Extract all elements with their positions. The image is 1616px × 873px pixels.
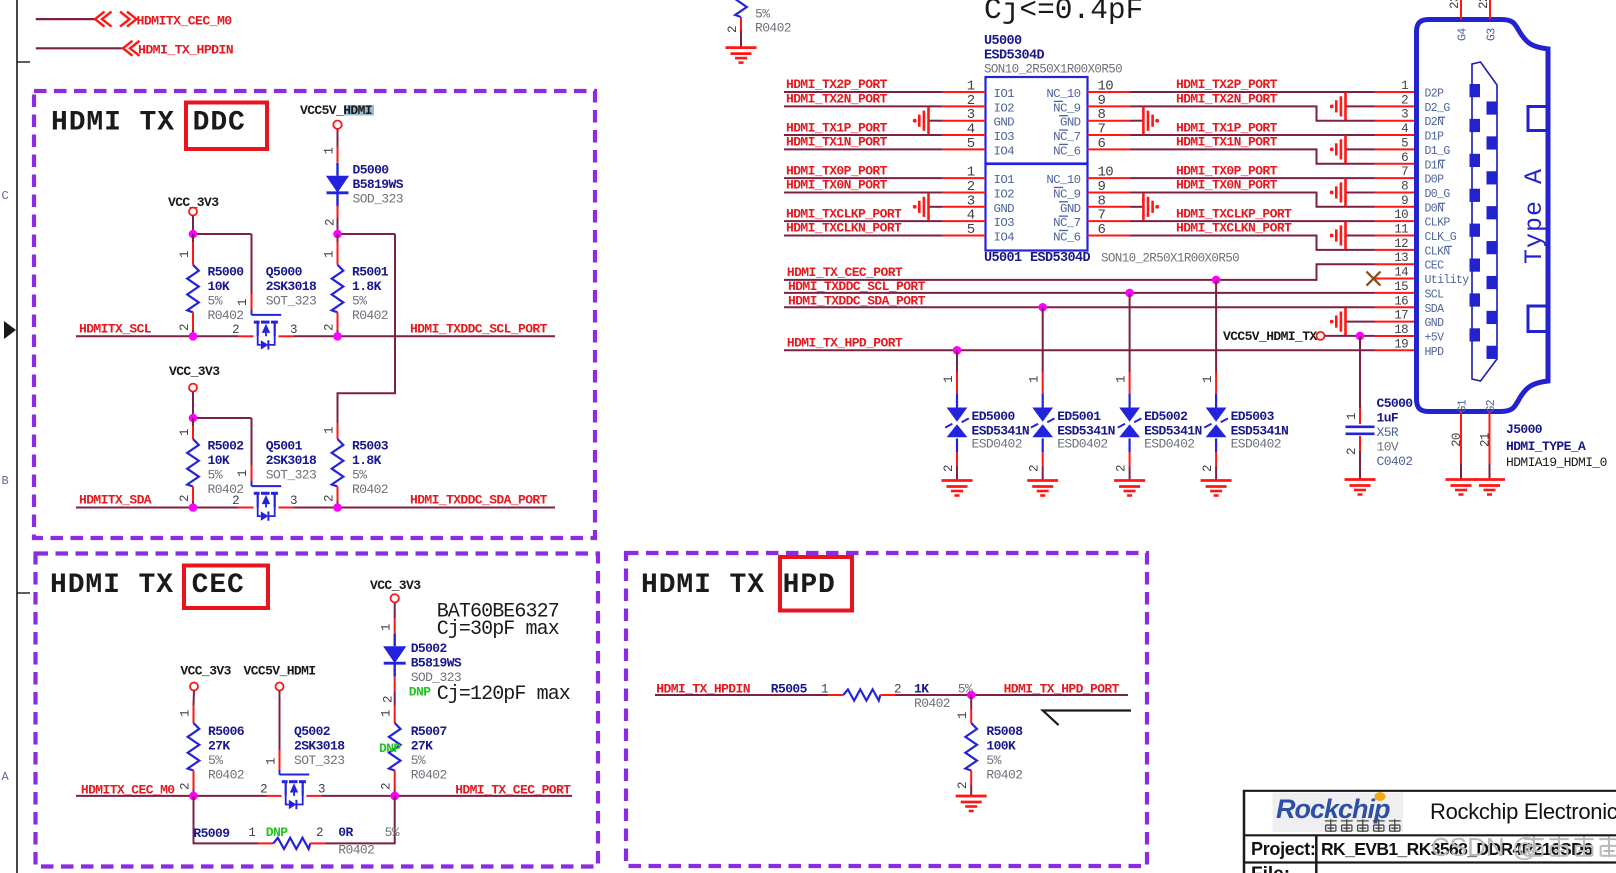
svg-text:NC_7: NC_7 — [1053, 130, 1081, 144]
svg-text:Q5000: Q5000 — [266, 265, 303, 280]
svg-text:1: 1 — [323, 251, 337, 258]
svg-text:2: 2 — [260, 783, 267, 797]
svg-text:C5000: C5000 — [1377, 396, 1414, 411]
svg-text:2: 2 — [380, 783, 394, 790]
svg-text:NC_9: NC_9 — [1053, 101, 1081, 115]
svg-text:GND: GND — [1060, 202, 1081, 216]
svg-text:D1P: D1P — [1425, 131, 1445, 144]
svg-text:2: 2 — [232, 323, 239, 337]
svg-text:IO1: IO1 — [994, 87, 1015, 101]
svg-text:7: 7 — [1401, 165, 1408, 179]
svg-text:C: C — [2, 189, 9, 203]
svg-text:2: 2 — [323, 324, 337, 331]
svg-text:ED5000: ED5000 — [972, 409, 1016, 424]
svg-text:R0402: R0402 — [914, 696, 950, 711]
svg-text:R5000: R5000 — [208, 265, 245, 280]
svg-text:1: 1 — [178, 429, 192, 436]
svg-text:2: 2 — [178, 324, 192, 331]
svg-text:CSDN @: CSDN @ — [1431, 832, 1538, 862]
svg-text:ESD0402: ESD0402 — [1057, 437, 1107, 452]
svg-text:ED5001: ED5001 — [1057, 409, 1101, 424]
svg-text:100K: 100K — [986, 739, 1016, 754]
svg-text:G2: G2 — [1485, 399, 1498, 412]
svg-text:C0402: C0402 — [1377, 454, 1413, 469]
svg-text:NC_6: NC_6 — [1053, 144, 1081, 158]
svg-text:HDMI_TX_HPD_PORT: HDMI_TX_HPD_PORT — [787, 336, 903, 351]
svg-text:GND: GND — [1425, 317, 1445, 330]
svg-text:Cj=30pF max: Cj=30pF max — [437, 618, 560, 641]
svg-text:ESD5304D: ESD5304D — [1030, 251, 1091, 266]
svg-text:ESD0402: ESD0402 — [972, 437, 1022, 452]
svg-text:10: 10 — [1394, 208, 1408, 222]
svg-text:2: 2 — [1028, 465, 1042, 472]
svg-text:D1_G: D1_G — [1425, 145, 1451, 158]
svg-text:VCC_3V3: VCC_3V3 — [169, 364, 220, 379]
svg-text:2: 2 — [179, 783, 193, 790]
svg-text:5%: 5% — [208, 294, 223, 309]
svg-text:2: 2 — [1401, 93, 1408, 107]
svg-text:HDMI_TX1P_PORT: HDMI_TX1P_PORT — [786, 120, 888, 135]
svg-text:2: 2 — [232, 494, 239, 508]
svg-text:DNP: DNP — [409, 685, 431, 700]
svg-text:HDMITX_SCL: HDMITX_SCL — [79, 321, 152, 336]
svg-text:HDMIA19_HDMI_0: HDMIA19_HDMI_0 — [1506, 455, 1607, 470]
svg-text:R0402: R0402 — [208, 308, 244, 323]
svg-text:2SK3018: 2SK3018 — [294, 739, 345, 754]
svg-text:J5000: J5000 — [1506, 422, 1543, 437]
svg-text:HDMI_TX1N_PORT: HDMI_TX1N_PORT — [1176, 135, 1278, 150]
svg-text:R5008: R5008 — [986, 724, 1023, 739]
svg-text:20: 20 — [1450, 433, 1464, 447]
svg-text:G4: G4 — [1457, 28, 1470, 41]
svg-text:D5000: D5000 — [353, 163, 390, 178]
svg-text:R5006: R5006 — [208, 724, 245, 739]
svg-text:19: 19 — [1394, 337, 1408, 351]
svg-text:SON10_2R50X1R00X0R50: SON10_2R50X1R00X0R50 — [1101, 252, 1239, 266]
svg-text:B: B — [2, 474, 9, 488]
svg-text:ESD0402: ESD0402 — [1231, 437, 1281, 452]
svg-text:GND: GND — [994, 202, 1015, 216]
svg-text:SOT_323: SOT_323 — [266, 294, 316, 309]
svg-text:CLK_G: CLK_G — [1425, 231, 1457, 244]
svg-text:IO3: IO3 — [994, 130, 1015, 144]
svg-text:13: 13 — [1394, 251, 1408, 265]
svg-text:IO2: IO2 — [994, 187, 1015, 201]
svg-text:R0402: R0402 — [411, 768, 447, 783]
svg-text:SDA: SDA — [1425, 303, 1445, 316]
svg-text:A: A — [2, 770, 10, 784]
svg-text:R5002: R5002 — [208, 439, 245, 454]
svg-text:2SK3018: 2SK3018 — [266, 453, 317, 468]
svg-text:5%: 5% — [352, 468, 367, 483]
svg-text:1: 1 — [1201, 376, 1215, 383]
svg-text:HDMI_TX2N_PORT: HDMI_TX2N_PORT — [786, 92, 888, 107]
svg-text:2: 2 — [1201, 465, 1215, 472]
svg-text:Rockchip Electronics Co.,: Rockchip Electronics Co., — [1430, 799, 1616, 824]
svg-text:23: 23 — [1448, 0, 1462, 9]
svg-text:ESD5304D: ESD5304D — [984, 49, 1045, 64]
svg-text:10V: 10V — [1377, 440, 1399, 455]
svg-text:ESD0402: ESD0402 — [1144, 437, 1194, 452]
svg-text:27K: 27K — [208, 739, 230, 754]
svg-text:ED5003: ED5003 — [1231, 409, 1275, 424]
svg-text:D2N: D2N — [1425, 116, 1444, 129]
svg-text:1: 1 — [380, 710, 394, 717]
svg-text:R5009: R5009 — [193, 826, 230, 841]
svg-text:Cj=120pF max: Cj=120pF max — [437, 683, 571, 706]
svg-text:15: 15 — [1394, 280, 1408, 294]
svg-text:5%: 5% — [986, 753, 1001, 768]
svg-text:1: 1 — [1115, 376, 1129, 383]
svg-text:1: 1 — [380, 624, 394, 631]
svg-text:2: 2 — [382, 696, 396, 703]
svg-text:1: 1 — [323, 427, 337, 434]
svg-text:1: 1 — [1028, 376, 1042, 383]
svg-text:CLKN: CLKN — [1425, 245, 1450, 258]
svg-text:10K: 10K — [208, 453, 230, 468]
svg-text:U5001: U5001 — [984, 251, 1022, 266]
svg-text:5%: 5% — [755, 7, 770, 22]
svg-text:5%: 5% — [208, 753, 223, 768]
svg-text:HDMI_TXCLKN_PORT: HDMI_TXCLKN_PORT — [1176, 221, 1292, 236]
svg-text:VCC5V_HDMI_TX: VCC5V_HDMI_TX — [1223, 329, 1317, 344]
svg-text:1: 1 — [1401, 79, 1408, 93]
svg-text:2: 2 — [323, 495, 337, 502]
svg-text:5%: 5% — [411, 753, 426, 768]
svg-text:D2P: D2P — [1425, 88, 1445, 101]
svg-text:2: 2 — [1345, 448, 1359, 455]
svg-text:3: 3 — [290, 494, 297, 508]
svg-text:IO3: IO3 — [994, 216, 1015, 230]
svg-text:22: 22 — [1477, 0, 1491, 9]
svg-text:D1N: D1N — [1425, 159, 1444, 172]
svg-text:HDMI_TX_CEC_PORT: HDMI_TX_CEC_PORT — [787, 265, 903, 280]
svg-text:G1: G1 — [1457, 399, 1470, 412]
svg-text:1: 1 — [236, 299, 250, 306]
svg-text:16: 16 — [1394, 294, 1408, 308]
svg-text:1: 1 — [265, 758, 279, 765]
svg-text:+5V: +5V — [1425, 331, 1445, 344]
svg-text:R5003: R5003 — [352, 439, 389, 454]
svg-text:G3: G3 — [1486, 28, 1499, 41]
svg-text:SCL: SCL — [1425, 288, 1445, 301]
svg-text:NC_6: NC_6 — [1053, 231, 1081, 245]
svg-text:HDMI TX CEC: HDMI TX CEC — [50, 570, 245, 601]
svg-text:X5R: X5R — [1377, 425, 1399, 440]
svg-text:1: 1 — [236, 470, 250, 477]
svg-text:DNP: DNP — [266, 825, 288, 840]
svg-text:HDMI_TX2P_PORT: HDMI_TX2P_PORT — [786, 77, 888, 92]
svg-text:1: 1 — [323, 148, 337, 155]
svg-text:R0402: R0402 — [352, 308, 388, 323]
svg-text:11: 11 — [1394, 223, 1408, 237]
svg-text:Q5001: Q5001 — [266, 439, 303, 454]
svg-text:5: 5 — [1401, 136, 1408, 150]
svg-text:HDMI_TX0P_PORT: HDMI_TX0P_PORT — [786, 163, 888, 178]
svg-text:R0402: R0402 — [755, 21, 791, 36]
svg-text:D2_G: D2_G — [1425, 102, 1451, 115]
svg-text:CEC: CEC — [1425, 260, 1445, 273]
svg-text:2: 2 — [726, 26, 740, 33]
svg-text:HDMI_TX0N_PORT: HDMI_TX0N_PORT — [1176, 178, 1278, 193]
svg-text:GND: GND — [994, 116, 1015, 130]
svg-text:VCC_3V3: VCC_3V3 — [370, 578, 421, 593]
svg-text:HDMI_TX2P_PORT: HDMI_TX2P_PORT — [1176, 77, 1278, 92]
svg-text:3: 3 — [1401, 108, 1408, 122]
svg-text:Cj<=0.4pF: Cj<=0.4pF — [984, 0, 1143, 27]
svg-text:6: 6 — [1401, 151, 1408, 165]
svg-text:1: 1 — [1345, 413, 1359, 420]
svg-text:2: 2 — [942, 465, 956, 472]
svg-text:1: 1 — [956, 712, 970, 719]
svg-text:NC_7: NC_7 — [1053, 216, 1081, 230]
svg-text:HDMI_TXDDC_SCL_PORT: HDMI_TXDDC_SCL_PORT — [788, 279, 926, 294]
svg-text:R0402: R0402 — [352, 482, 388, 497]
svg-text:R5007: R5007 — [411, 724, 447, 739]
svg-text:HDMITX_SDA: HDMITX_SDA — [79, 493, 152, 508]
svg-text:Type A: Type A — [1520, 168, 1549, 264]
svg-text:VCC5V_HDMI: VCC5V_HDMI — [300, 103, 372, 118]
svg-text:3: 3 — [318, 783, 325, 797]
svg-text:R0402: R0402 — [986, 768, 1022, 783]
svg-text:GND: GND — [1060, 116, 1081, 130]
svg-text:IO1: IO1 — [994, 173, 1015, 187]
svg-text:HDMITX_CEC_M0: HDMITX_CEC_M0 — [137, 13, 233, 28]
svg-text:B5819WS: B5819WS — [411, 656, 462, 671]
svg-text:12: 12 — [1394, 237, 1408, 251]
svg-text:Rockchip: Rockchip — [1276, 794, 1390, 824]
svg-text:ED5002: ED5002 — [1144, 409, 1188, 424]
svg-text:1: 1 — [178, 251, 192, 258]
svg-text:10K: 10K — [208, 279, 230, 294]
svg-text:HDMI_TX_HPDIN: HDMI_TX_HPDIN — [138, 43, 234, 58]
svg-text:U5000: U5000 — [984, 34, 1022, 49]
svg-text:NC_9: NC_9 — [1053, 187, 1081, 201]
svg-text:3: 3 — [290, 323, 297, 337]
svg-text:SON10_2R50X1R00X0R50: SON10_2R50X1R00X0R50 — [984, 63, 1122, 77]
svg-text:1.8K: 1.8K — [352, 279, 382, 294]
svg-text:SOD_323: SOD_323 — [353, 192, 403, 207]
svg-text:HDMI_TXDDC_SDA_PORT: HDMI_TXDDC_SDA_PORT — [410, 493, 548, 508]
svg-text:DNP: DNP — [379, 741, 401, 756]
svg-text:CLKP: CLKP — [1425, 217, 1451, 230]
svg-text:R0402: R0402 — [338, 843, 374, 858]
svg-text:1: 1 — [248, 826, 255, 840]
svg-text:5%: 5% — [352, 294, 367, 309]
svg-text:27K: 27K — [411, 739, 433, 754]
svg-text:R5001: R5001 — [352, 265, 389, 280]
svg-text:IO2: IO2 — [994, 101, 1015, 115]
svg-text:14: 14 — [1394, 266, 1408, 280]
svg-text:HDMI TX HPD: HDMI TX HPD — [641, 570, 836, 601]
svg-text:VCC_3V3: VCC_3V3 — [180, 663, 231, 678]
svg-text:HDMI_TX1P_PORT: HDMI_TX1P_PORT — [1176, 120, 1278, 135]
svg-text:17: 17 — [1394, 309, 1408, 323]
svg-text:8: 8 — [1401, 179, 1408, 193]
svg-text:2: 2 — [1115, 465, 1129, 472]
svg-text:2: 2 — [316, 826, 323, 840]
svg-text:D0_G: D0_G — [1425, 188, 1451, 201]
svg-text:2: 2 — [956, 782, 970, 789]
svg-text:2: 2 — [178, 495, 192, 502]
svg-text:Q5002: Q5002 — [294, 724, 331, 739]
svg-text:R0402: R0402 — [208, 768, 244, 783]
svg-text:HDMI_TXDDC_SCL_PORT: HDMI_TXDDC_SCL_PORT — [410, 321, 548, 336]
svg-text:HDMI TX DDC: HDMI TX DDC — [51, 108, 246, 139]
svg-text:HDMI_TX0N_PORT: HDMI_TX0N_PORT — [786, 178, 888, 193]
svg-text:VCC5V_HDMI: VCC5V_HDMI — [244, 663, 316, 678]
svg-text:2: 2 — [324, 219, 338, 226]
svg-text:NC_10: NC_10 — [1046, 87, 1080, 101]
svg-text:HDMI_TXCLKP_PORT: HDMI_TXCLKP_PORT — [1176, 206, 1292, 221]
svg-text:Project:: Project: — [1251, 839, 1316, 859]
svg-text:D0N: D0N — [1425, 202, 1444, 215]
svg-text:9: 9 — [1401, 194, 1408, 208]
svg-text:1.8K: 1.8K — [352, 453, 382, 468]
svg-text:B5819WS: B5819WS — [353, 177, 404, 192]
svg-text:1uF: 1uF — [1377, 411, 1399, 426]
svg-text:21: 21 — [1479, 433, 1493, 447]
svg-text:HDMI_TX1N_PORT: HDMI_TX1N_PORT — [786, 135, 888, 150]
svg-text:D0P: D0P — [1425, 174, 1445, 187]
svg-text:HDMI_TYPE_A: HDMI_TYPE_A — [1506, 439, 1586, 454]
svg-text:5%: 5% — [385, 825, 400, 840]
svg-text:HDMI_TX2N_PORT: HDMI_TX2N_PORT — [1176, 92, 1278, 107]
svg-text:HDMI_TXCLKP_PORT: HDMI_TXCLKP_PORT — [786, 206, 902, 221]
svg-text:File:: File: — [1251, 864, 1290, 873]
svg-text:1: 1 — [942, 376, 956, 383]
svg-text:HPD: HPD — [1425, 346, 1445, 359]
svg-text:18: 18 — [1394, 323, 1408, 337]
svg-text:IO4: IO4 — [994, 144, 1015, 158]
svg-text:HDMI_TXCLKN_PORT: HDMI_TXCLKN_PORT — [786, 221, 902, 236]
svg-text:SOT_323: SOT_323 — [266, 468, 316, 483]
svg-text:SOT_323: SOT_323 — [294, 753, 344, 768]
svg-text:Utility: Utility — [1425, 274, 1470, 287]
svg-text:NC_10: NC_10 — [1046, 173, 1080, 187]
svg-text:2SK3018: 2SK3018 — [266, 279, 317, 294]
svg-text:0R: 0R — [338, 825, 353, 840]
svg-text:D5002: D5002 — [411, 641, 448, 656]
svg-text:1: 1 — [179, 710, 193, 717]
svg-text:4: 4 — [1401, 122, 1408, 136]
svg-text:IO4: IO4 — [994, 231, 1015, 245]
svg-text:5%: 5% — [208, 468, 223, 483]
svg-text:HDMI_TX0P_PORT: HDMI_TX0P_PORT — [1176, 163, 1278, 178]
